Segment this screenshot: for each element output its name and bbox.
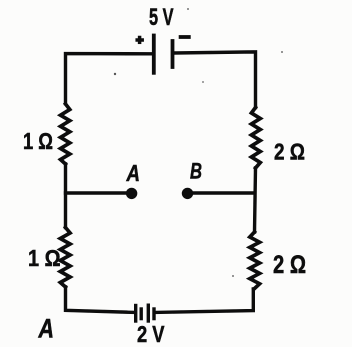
svg-text:A: A — [126, 160, 140, 186]
wire right-middle (R4 top through node junction to R3 bottom) — [255, 168, 256, 232]
battery B2 2V plate 1 (long) — [134, 306, 137, 322]
wire left-middle (R1 bottom through node junction to R2 top) — [64, 164, 67, 228]
speck dot noise 4 — [232, 275, 234, 277]
node A junction dot — [126, 188, 137, 199]
node B junction dot — [182, 188, 193, 199]
speck dot noise 1 — [114, 73, 116, 75]
svg-text:A: A — [38, 314, 54, 344]
battery B2 2V plate 2 (short) — [139, 309, 142, 319]
wire node-A stub (left branch to node A) — [66, 191, 128, 194]
svg-text:2 Ω: 2 Ω — [274, 139, 305, 165]
battery B2 2V plate 4 (short) — [152, 309, 155, 319]
battery B2 2V plate 3 (long) — [147, 305, 150, 321]
wire node-B stub (node B to right branch) — [189, 191, 255, 194]
svg-text:B: B — [190, 159, 202, 184]
wire bottom-left (R2 bottom, corner A, to 2V battery left plate) — [66, 287, 135, 312]
svg-text:1 Ω: 1 Ω — [28, 245, 61, 271]
wire top-left (battery + terminal to left branch corner, down to R1) — [66, 54, 153, 104]
svg-text:1 Ω: 1 Ω — [23, 128, 53, 154]
svg-text:5 V: 5 V — [149, 4, 174, 31]
wire bottom-right (2V battery right plate to right corner, up to R4) — [156, 289, 254, 312]
wire top-right (battery - terminal to right branch corner, down to R3) — [175, 52, 256, 108]
battery B1 5V right plate (-, short) — [171, 41, 175, 67]
polarity minus sign of B1 — [181, 35, 189, 39]
svg-text:2 Ω: 2 Ω — [273, 251, 306, 279]
speck dot noise 5 — [202, 81, 204, 83]
battery B1 5V left plate (+, long) — [152, 36, 156, 73]
speck dot noise 2 — [187, 8, 189, 10]
resistor R4 2-ohm lower-right zigzag — [250, 232, 260, 289]
resistor R2 1-ohm lower-left zigzag — [60, 228, 70, 288]
resistor R1 1-ohm upper-left zigzag — [61, 104, 70, 164]
polarity plus sign of B1 — [137, 38, 142, 43]
speck dot noise 3 — [281, 51, 283, 53]
resistor R3 2-ohm upper-right zigzag — [251, 108, 260, 169]
svg-text:2 V: 2 V — [137, 321, 165, 347]
